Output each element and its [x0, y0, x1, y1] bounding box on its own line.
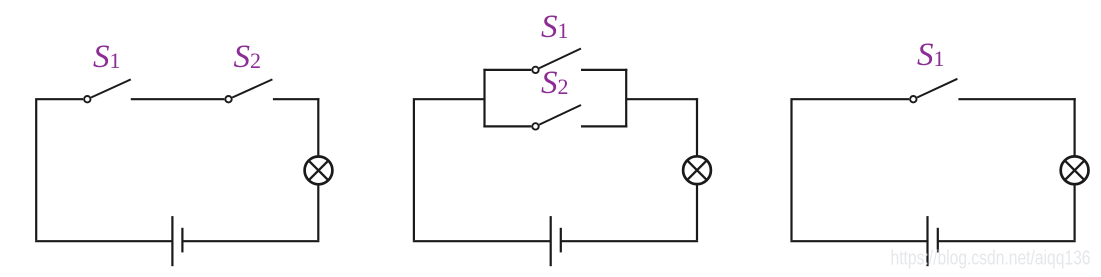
- wire bottom right from battery: [182, 240, 319, 242]
- battery B1 short plate: [181, 228, 183, 253]
- wire bottom right from battery: [561, 240, 698, 242]
- switch S2 pivot circle: [225, 96, 231, 102]
- switch S1 lever: [917, 79, 957, 98]
- battery B2 long plate: [550, 216, 552, 266]
- switch S1 pivot circle (top branch): [532, 67, 538, 73]
- wire right above lamp: [1073, 98, 1075, 156]
- wire bottom right from battery: [938, 240, 1076, 242]
- switch S1 pivot circle: [84, 96, 90, 102]
- wire bottom left to battery: [413, 240, 551, 242]
- switch S2 pivot circle (bottom branch): [532, 123, 538, 129]
- wire bottom left to battery: [790, 240, 927, 242]
- switch S1 lever: [91, 79, 131, 97]
- switch S2 lever (bottom branch): [539, 105, 581, 125]
- battery B3 long plate: [926, 216, 928, 266]
- wire bottom left to battery: [35, 240, 172, 242]
- wire right below lamp: [1073, 184, 1075, 240]
- wire between switches: [131, 98, 225, 100]
- wire exit from parallel box: [626, 98, 698, 100]
- wire left+top segment to switch S1: [36, 99, 83, 240]
- wire right below lamp: [696, 184, 698, 240]
- battery B1 long plate: [171, 216, 173, 266]
- battery B3 short plate: [937, 228, 939, 253]
- wire right below lamp: [317, 184, 319, 240]
- lamp L2: [683, 156, 711, 184]
- wire top right from switch: [958, 98, 1075, 100]
- svg-text:https://blog.csdn.net/aiqq136: https://blog.csdn.net/aiqq136: [891, 248, 1091, 270]
- parallel box right vertical: [625, 69, 627, 128]
- wire top branch right: [581, 69, 627, 71]
- switch S2 lever: [232, 79, 272, 97]
- wire bottom branch right: [581, 125, 627, 127]
- wire right above lamp: [317, 98, 319, 156]
- wire top branch left: [483, 69, 531, 71]
- wire left side: [414, 99, 485, 240]
- wire top right from switch S2: [273, 98, 320, 100]
- lamp L3: [1061, 156, 1089, 184]
- wire right above lamp: [696, 98, 698, 156]
- battery B2 short plate: [560, 228, 562, 253]
- wire bottom branch left: [483, 125, 531, 127]
- switch S1 lever (top branch): [539, 49, 581, 69]
- parallel box left vertical: [483, 69, 485, 128]
- lamp L1: [305, 157, 333, 185]
- wire left+top segment to switch S1: [792, 99, 910, 240]
- switch S1 pivot circle: [910, 96, 916, 102]
